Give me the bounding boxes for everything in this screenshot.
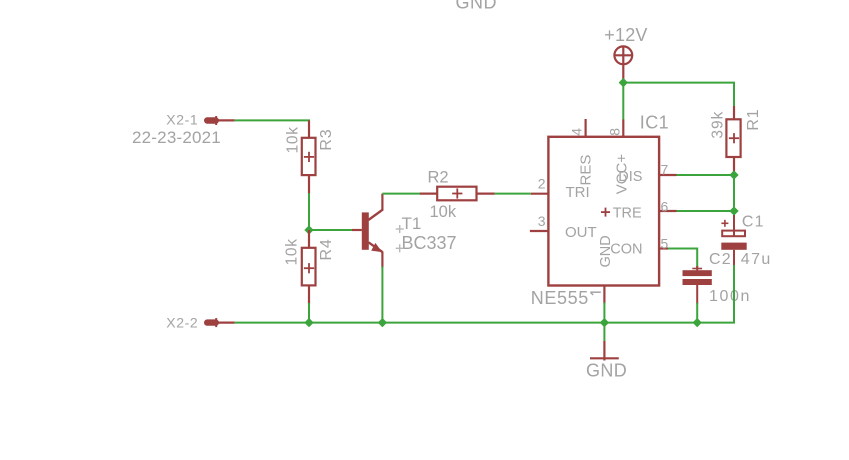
svg-text:47u: 47u xyxy=(741,251,772,268)
svg-text:C2: C2 xyxy=(709,251,732,268)
svg-text:TRE: TRE xyxy=(613,205,642,221)
ground symbol GND xyxy=(590,341,619,361)
resistor R1 xyxy=(726,106,740,174)
svg-text:5: 5 xyxy=(661,235,669,251)
wire C1 bottom to rail xyxy=(733,265,735,323)
origin crosses (grey) xyxy=(396,225,404,252)
pin 6 (TRE) stub xyxy=(659,210,676,212)
svg-text:GND: GND xyxy=(456,0,498,13)
pin number 1 xyxy=(590,292,601,295)
pin 2 (TRI) stub xyxy=(531,193,549,195)
pin 3 (OUT) stub xyxy=(530,230,549,232)
svg-text:100n: 100n xyxy=(709,288,751,305)
svg-text:10k: 10k xyxy=(285,126,302,153)
svg-text:C1: C1 xyxy=(742,214,765,231)
svg-text:IC1: IC1 xyxy=(640,113,669,133)
wire junction to T1 base xyxy=(309,229,352,231)
wire R4 to rail xyxy=(308,303,310,323)
svg-text:T1: T1 xyxy=(402,214,422,233)
svg-text:22-23-2021: 22-23-2021 xyxy=(132,128,221,147)
connector pin X2-2 xyxy=(205,318,235,327)
junction emitter/rail xyxy=(378,318,387,327)
wire R2 to IC pin2 xyxy=(495,193,531,195)
wire C2 bottom to rail xyxy=(696,303,698,323)
svg-text:TRI: TRI xyxy=(566,184,590,201)
capacitor C2 xyxy=(683,266,712,304)
svg-text:4: 4 xyxy=(569,128,585,136)
wire T1 collector to R2 xyxy=(382,193,420,195)
pin 4 (RES) stub xyxy=(584,119,586,137)
wire X2-1 to R3 xyxy=(235,120,309,122)
bottom rail wire xyxy=(235,265,734,323)
pin 5 (CON) stub xyxy=(659,247,668,249)
junction pin7 node xyxy=(729,170,738,179)
svg-text:X2-1: X2-1 xyxy=(166,111,198,127)
svg-text:R1: R1 xyxy=(745,109,762,131)
svg-text:39k: 39k xyxy=(710,111,727,139)
svg-text:+12V: +12V xyxy=(604,25,647,45)
wire pin7 to R1 bottom xyxy=(676,175,734,217)
svg-text:DIS: DIS xyxy=(618,169,642,185)
svg-text:NE555: NE555 xyxy=(531,288,589,308)
resistor R4 xyxy=(302,230,316,304)
junction pin6 node xyxy=(729,206,738,215)
svg-text:OUT: OUT xyxy=(565,224,597,241)
svg-text:RES: RES xyxy=(578,155,595,186)
svg-text:10k: 10k xyxy=(430,203,457,221)
capacitor C1 (polarized) xyxy=(721,215,746,266)
junction C2/rail xyxy=(693,318,702,327)
svg-text:BC337: BC337 xyxy=(402,233,457,253)
svg-text:2: 2 xyxy=(538,176,546,192)
svg-text:R3: R3 xyxy=(318,129,335,151)
wire R3 to junction xyxy=(308,193,310,230)
IC op U IC1 NE555 body xyxy=(548,137,659,286)
svg-text:R2: R2 xyxy=(428,169,449,187)
svg-text:GND: GND xyxy=(598,235,614,267)
pin 7 (DIS) stub xyxy=(659,174,676,176)
junction at +12V node xyxy=(619,78,628,87)
junction R4/rail xyxy=(304,318,313,327)
transistor Q T1 BC337 xyxy=(352,194,382,268)
svg-text:CON: CON xyxy=(610,242,642,258)
resistor R2 xyxy=(420,187,495,201)
junction base node xyxy=(304,225,313,234)
svg-text:6: 6 xyxy=(661,198,669,214)
wire IC pin1 to rail xyxy=(603,303,605,323)
svg-text:GND: GND xyxy=(586,361,627,381)
wire emitter to rail xyxy=(381,267,383,323)
svg-text:R4: R4 xyxy=(318,238,335,260)
svg-text:7: 7 xyxy=(661,161,669,177)
resistor R3 xyxy=(302,120,316,194)
svg-text:X2-2: X2-2 xyxy=(166,315,198,331)
supply symbol +12V xyxy=(614,46,632,82)
junction pin1/rail xyxy=(600,318,609,327)
wire pin5 to C2 xyxy=(668,249,697,268)
connector pin X2-1 xyxy=(205,116,235,125)
wire +12V horizontal to R1 column xyxy=(623,83,734,108)
pin 8 (VCC+) stub xyxy=(622,120,624,137)
svg-text:3: 3 xyxy=(538,213,546,229)
clamp + mark (red) xyxy=(601,208,610,217)
wire +12V down to IC pin 8 xyxy=(622,83,624,120)
svg-text:10k: 10k xyxy=(284,238,301,265)
svg-text:8: 8 xyxy=(606,128,622,136)
wire rail to GND symbol xyxy=(603,323,605,342)
pin 1 (GND) stub xyxy=(603,286,605,304)
